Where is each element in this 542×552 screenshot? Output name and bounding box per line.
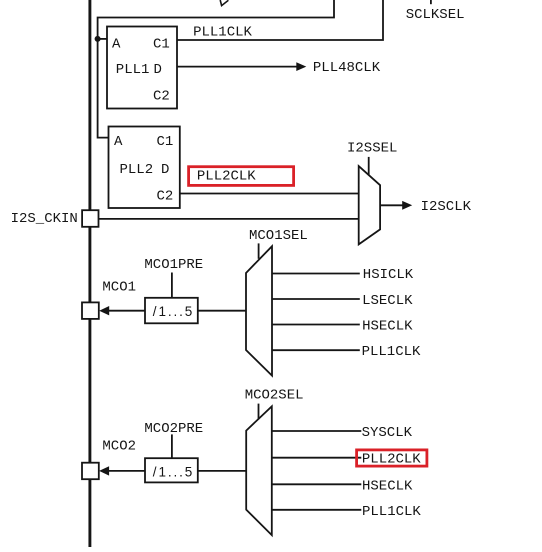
wire to PLL1 A pin bbox=[98, 38, 107, 40]
svg-text:D: D bbox=[161, 162, 169, 178]
arrowhead I2SCLK bbox=[402, 201, 412, 210]
svg-text:MCO1SEL: MCO1SEL bbox=[249, 228, 308, 244]
svg-text:PLL2: PLL2 bbox=[120, 162, 154, 178]
wire I2S_CKIN to mux bbox=[99, 218, 359, 220]
svg-text:MCO2SEL: MCO2SEL bbox=[245, 387, 304, 403]
bus line CK_SYS vertical bbox=[88, 0, 91, 547]
wire HSICLK input bbox=[272, 273, 360, 275]
pin square MCO1 bbox=[82, 302, 99, 319]
svg-text:C2: C2 bbox=[157, 189, 174, 205]
svg-text:MCO2PRE: MCO2PRE bbox=[144, 421, 203, 437]
divider MCO2PRE box bbox=[145, 458, 198, 482]
divider MCO1PRE box bbox=[145, 298, 198, 324]
arrowhead MCO2 bbox=[99, 466, 109, 475]
wire PLL1CLK from C1 bbox=[177, 0, 383, 40]
svg-text:HSICLK: HSICLK bbox=[363, 267, 414, 283]
wire PLL2 C2 output bbox=[180, 193, 359, 195]
op-amp PLL1 box bbox=[107, 27, 177, 109]
wire LSECLK input bbox=[272, 298, 360, 300]
wire MCO2 mux output bbox=[198, 470, 246, 472]
arrowhead PLL48CLK bbox=[296, 62, 306, 71]
svg-text:I2SCLK: I2SCLK bbox=[421, 199, 472, 215]
svg-text:C1: C1 bbox=[153, 36, 170, 52]
wire MCO1PRE label line bbox=[171, 273, 173, 298]
wire MCO1SEL select bbox=[258, 243, 260, 258]
svg-text:PLL1CLK: PLL1CLK bbox=[362, 344, 421, 360]
wire feed from top mux to PLL1/PLL2 A inputs bbox=[98, 0, 334, 138]
svg-text:A: A bbox=[112, 36, 121, 52]
svg-text:PLL1CLK: PLL1CLK bbox=[193, 24, 252, 40]
svg-text:I2S_CKIN: I2S_CKIN bbox=[11, 211, 78, 227]
svg-text:PLL1CLK: PLL1CLK bbox=[362, 504, 421, 520]
svg-text:HSECLK: HSECLK bbox=[362, 318, 413, 334]
wire I2SSEL select bbox=[368, 157, 370, 175]
svg-text:C2: C2 bbox=[153, 89, 170, 105]
pin square MCO2 bbox=[82, 463, 99, 480]
red highlight box PLL2CLK label bbox=[189, 167, 294, 186]
wire PLL1CLK input to MCO1 mux bbox=[272, 349, 360, 351]
svg-text:MCO1PRE: MCO1PRE bbox=[144, 257, 203, 273]
arrowhead fragment top bbox=[220, 0, 228, 6]
mux MCO1SEL bbox=[246, 246, 272, 375]
red highlight box PLL2CLK MCO2 input bbox=[357, 450, 427, 466]
svg-text:HSECLK: HSECLK bbox=[362, 478, 413, 494]
pin square I2S_CKIN bbox=[82, 210, 98, 227]
wire I2SCLK output bbox=[380, 204, 403, 206]
wire SYSCLK input bbox=[272, 430, 362, 432]
svg-text:MCO1: MCO1 bbox=[102, 279, 136, 295]
svg-text:LSECLK: LSECLK bbox=[362, 293, 413, 309]
wire MCO1 divider to pin bbox=[109, 310, 145, 312]
wire MCO2 divider to pin bbox=[109, 470, 145, 472]
wire PLL2CLK input to MCO2 mux bbox=[272, 457, 362, 459]
svg-text:PLL48CLK: PLL48CLK bbox=[313, 60, 381, 76]
svg-text:I2SSEL: I2SSEL bbox=[347, 140, 397, 156]
svg-text:/1...5: /1...5 bbox=[153, 304, 194, 319]
wire MCO2PRE label line bbox=[171, 434, 173, 458]
svg-text:PLL2CLK: PLL2CLK bbox=[197, 168, 256, 184]
wire HSECLK input to MCO2 mux bbox=[272, 483, 362, 485]
node junction dot A feed bbox=[95, 36, 101, 42]
svg-text:A: A bbox=[114, 134, 123, 150]
svg-text:PLL2CLK: PLL2CLK bbox=[362, 452, 421, 468]
svg-text:D: D bbox=[154, 62, 162, 78]
svg-text:SCLKSEL: SCLKSEL bbox=[406, 7, 465, 23]
wire MCO1 mux output bbox=[198, 310, 246, 312]
svg-text:SYSCLK: SYSCLK bbox=[362, 425, 413, 441]
svg-text:MCO2: MCO2 bbox=[102, 439, 136, 455]
wire PLL1CLK input to MCO2 mux bbox=[272, 509, 362, 511]
wire PLL48CLK from D bbox=[177, 66, 297, 68]
mux I2SSEL bbox=[359, 166, 380, 244]
wire SCLKSEL select tick bbox=[430, 0, 432, 4]
mux MCO2SEL bbox=[246, 406, 272, 535]
svg-text:/1...5: /1...5 bbox=[153, 464, 194, 479]
arrowhead MCO1 bbox=[99, 306, 109, 315]
svg-text:PLL1: PLL1 bbox=[116, 62, 150, 78]
wire MCO2SEL select bbox=[258, 404, 260, 420]
op-amp PLL2 box bbox=[109, 127, 180, 209]
wire HSECLK input bbox=[272, 324, 360, 326]
svg-text:C1: C1 bbox=[157, 134, 174, 150]
